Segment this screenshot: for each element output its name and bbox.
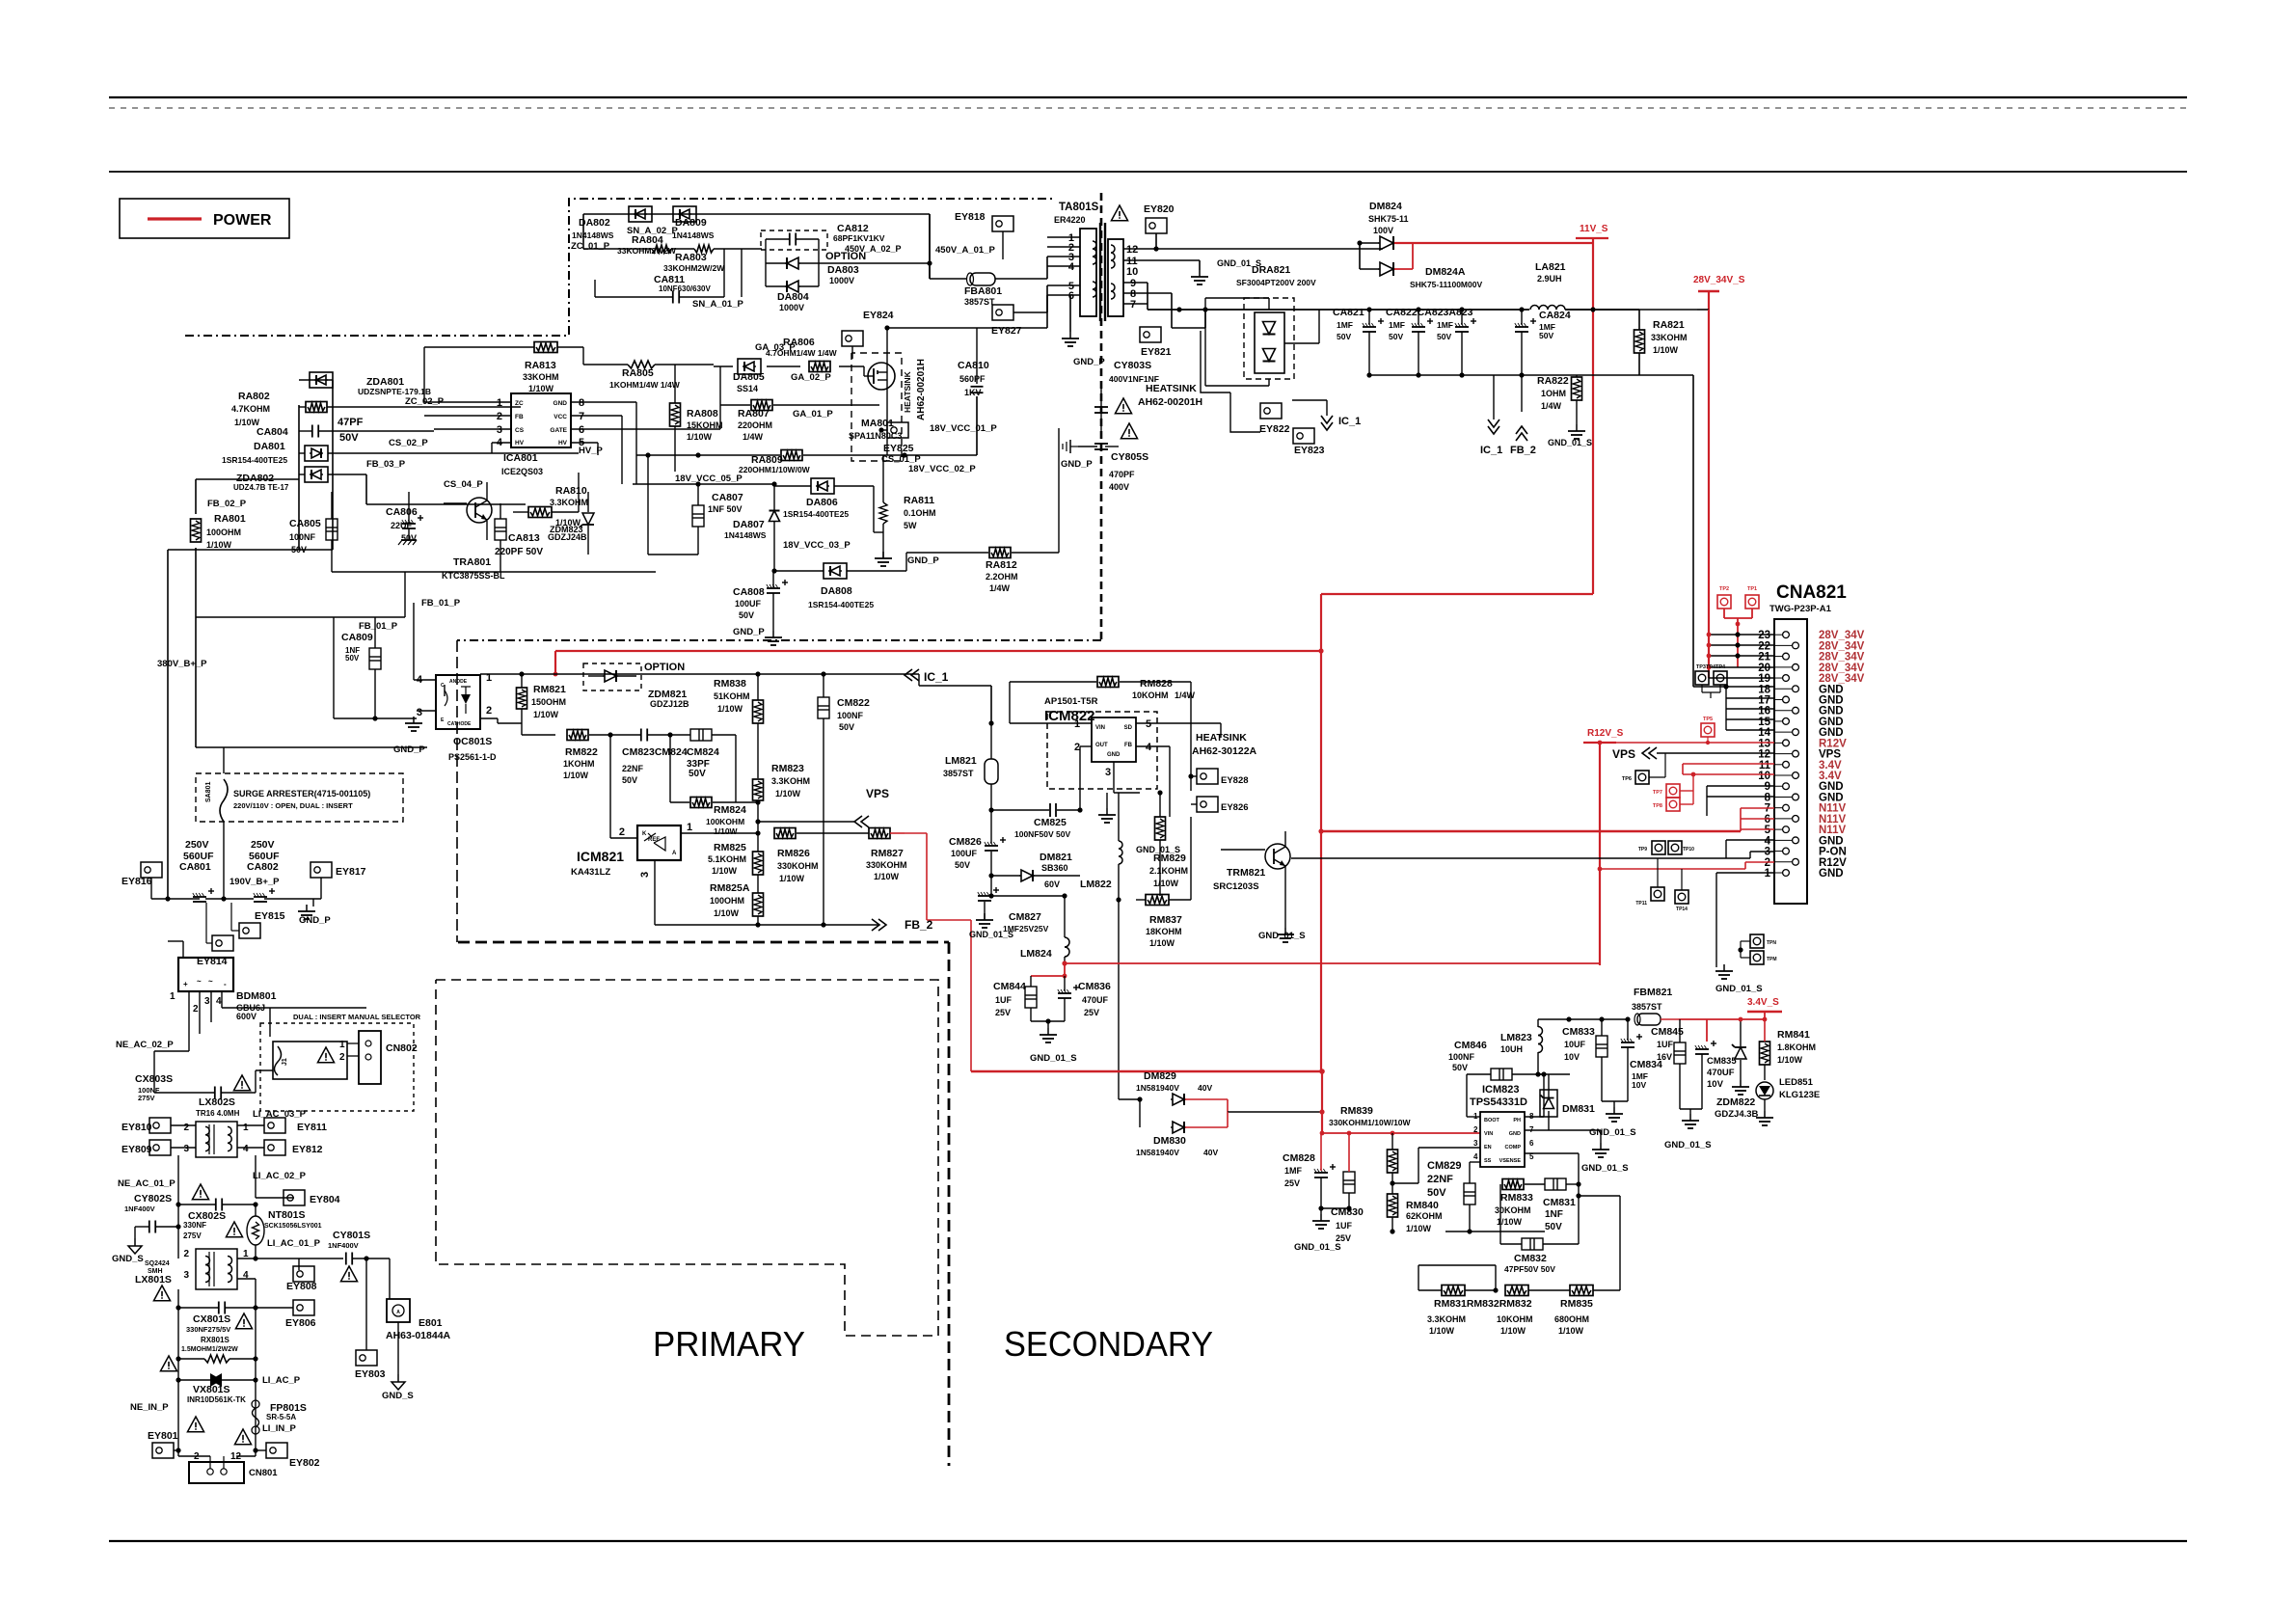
svg-text:2.2OHM: 2.2OHM xyxy=(986,572,1018,582)
label CA807 xyxy=(708,492,743,514)
wire FBM rail xyxy=(1538,1016,1631,1021)
label LI_IN_P xyxy=(262,1423,297,1434)
svg-text:220V/110V : OPEN, DUAL : INSER: 220V/110V : OPEN, DUAL : INSERT xyxy=(233,801,353,810)
connector CN801 xyxy=(178,1450,244,1483)
label LM824 xyxy=(1020,948,1052,960)
wire xfmr pin3 from FBA801 xyxy=(1046,257,1048,279)
svg-text:1/10W: 1/10W xyxy=(1429,1326,1455,1336)
label CM828 xyxy=(1283,1152,1315,1188)
CNA821 pin 16 GND xyxy=(1758,706,1843,717)
resistor RA802 symbol xyxy=(299,402,521,413)
CNA821 pin 1 GND xyxy=(1765,868,1844,880)
label CM833 xyxy=(1562,1026,1595,1062)
svg-text:5: 5 xyxy=(1146,718,1151,730)
CNA821 pin 19 28V_34V xyxy=(1758,673,1864,685)
testpoint TP14 xyxy=(1675,869,1688,912)
wire GND pin to gnd xyxy=(1525,1130,1629,1174)
label CA805 xyxy=(289,518,321,555)
svg-text:3: 3 xyxy=(497,424,502,436)
capacitor CM829 xyxy=(1392,1175,1475,1232)
label 28V_34V_S red xyxy=(1693,275,1745,291)
svg-text:K: K xyxy=(642,831,647,837)
svg-text:1NF: 1NF xyxy=(1545,1209,1563,1220)
sheet middle rule xyxy=(109,171,2187,173)
svg-text:3.3KOHM: 3.3KOHM xyxy=(550,498,588,507)
CNA821 pin 17 GND xyxy=(1758,694,1843,706)
svg-text:1N4148WS: 1N4148WS xyxy=(572,230,614,240)
svg-text:50V: 50V xyxy=(839,722,854,732)
svg-text:1/10W: 1/10W xyxy=(206,540,232,550)
resistor RM837 xyxy=(1065,817,1191,906)
label 18V_VCC_03_P xyxy=(783,540,851,551)
svg-text:TP10: TP10 xyxy=(1683,847,1694,853)
svg-text:SRC1203S: SRC1203S xyxy=(1213,881,1259,892)
wire SA801 vertical xyxy=(223,747,225,899)
svg-text:50V: 50V xyxy=(401,533,417,543)
terminal EY810 xyxy=(122,1118,196,1133)
svg-text:RX801S: RX801S xyxy=(201,1336,230,1344)
svg-text:ER4220: ER4220 xyxy=(1054,215,1086,225)
svg-text:GND: GND xyxy=(1819,706,1844,717)
svg-text:GND: GND xyxy=(1509,1131,1521,1137)
label GND_P CY805S xyxy=(1061,459,1093,470)
diode DM824 xyxy=(1357,236,1395,250)
svg-text:CY802S: CY802S xyxy=(134,1193,172,1204)
svg-text:CX801S: CX801S xyxy=(193,1313,230,1325)
wire B+ node xyxy=(165,896,224,901)
svg-text:1N581940V: 1N581940V xyxy=(1136,1083,1179,1093)
svg-text:EN: EN xyxy=(1484,1145,1492,1150)
svg-text:OPTION: OPTION xyxy=(644,662,685,673)
svg-text:CA810: CA810 xyxy=(958,360,989,371)
svg-text:RM840: RM840 xyxy=(1406,1200,1439,1211)
label 190V_B+_P xyxy=(230,877,280,887)
svg-text:EY822: EY822 xyxy=(1259,423,1290,435)
capacitor CM826 electrolytic xyxy=(985,810,1006,899)
label GND_01_S xfmr xyxy=(1217,258,1261,268)
warning triangle CY805S xyxy=(1121,423,1137,439)
CNA821 pin 7 N11V xyxy=(1765,803,1847,815)
label ZDM823 xyxy=(548,525,587,542)
svg-text:SHK75-11: SHK75-11 xyxy=(1368,214,1409,224)
varistor VX801S xyxy=(176,1373,257,1387)
svg-text:SECONDARY: SECONDARY xyxy=(1004,1324,1213,1364)
transformer TA801S label xyxy=(1054,202,1099,225)
svg-text:EY823: EY823 xyxy=(1294,445,1325,456)
svg-text:1: 1 xyxy=(339,1040,345,1050)
dual diode DRA821 inner box xyxy=(1255,312,1284,373)
label RM827 xyxy=(866,848,907,881)
transformer pin stubs xyxy=(1047,237,1080,295)
svg-text:10: 10 xyxy=(1758,771,1770,782)
wire 380V_B+ left vertical xyxy=(168,550,333,899)
svg-text:VIN: VIN xyxy=(1095,725,1105,731)
resistor RM841 xyxy=(1760,1019,1770,1080)
terminal EY815 xyxy=(231,903,285,938)
svg-text:50V: 50V xyxy=(1389,332,1403,341)
svg-text:VX801S: VX801S xyxy=(193,1384,230,1395)
IC ICM823 body xyxy=(1480,1112,1525,1167)
transistor TRA801 xyxy=(444,482,492,540)
wire xfmr primary pin6 gnd xyxy=(1062,295,1079,346)
ICA801 right pin wires xyxy=(571,402,720,484)
svg-text:220OHM: 220OHM xyxy=(738,420,772,430)
gnd E801 arrow xyxy=(382,1322,414,1401)
label CM826 xyxy=(949,836,982,870)
label 18V_VCC_01_P xyxy=(930,423,997,434)
svg-text:450V_A_01_P: 450V_A_01_P xyxy=(935,245,995,256)
svg-text:LX802S: LX802S xyxy=(199,1096,235,1108)
svg-text:21: 21 xyxy=(1758,652,1770,663)
svg-text:1: 1 xyxy=(170,991,176,1002)
fuse FP801S xyxy=(252,1380,259,1434)
wire divider row xyxy=(1392,1232,1418,1290)
svg-text:100V: 100V xyxy=(1373,226,1393,235)
label CM827 xyxy=(969,911,1049,939)
svg-text:0.1OHM: 0.1OHM xyxy=(904,508,936,518)
svg-text:TP11: TP11 xyxy=(1635,901,1647,907)
svg-text:GND_01_S: GND_01_S xyxy=(1589,1127,1636,1138)
svg-text:28V_34V: 28V_34V xyxy=(1819,640,1865,652)
inductor LM821 cylinder xyxy=(985,720,998,810)
optocoupler OC801S box xyxy=(436,675,480,729)
svg-text:J1: J1 xyxy=(282,1058,288,1066)
transformer winding arcs primary xyxy=(1093,241,1096,297)
black wire P-ON pin3 xyxy=(1291,852,1774,858)
svg-text:RM823: RM823 xyxy=(771,763,804,774)
net arrow FB_2 right xyxy=(1510,375,1536,456)
connector CNA821 body xyxy=(1774,619,1807,904)
svg-text:RA812: RA812 xyxy=(986,559,1017,571)
label CA812 xyxy=(825,223,902,262)
svg-text:CM832: CM832 xyxy=(1514,1253,1547,1264)
DRA821 diode bottom xyxy=(1263,349,1276,362)
svg-text:RA805: RA805 xyxy=(622,367,654,379)
svg-text:100OHM: 100OHM xyxy=(206,528,241,537)
svg-text:OPTION: OPTION xyxy=(825,251,866,262)
svg-text:GND: GND xyxy=(1819,868,1844,880)
capacitor CM835 electrolytic xyxy=(1695,1019,1716,1109)
diode DM824A xyxy=(1360,243,1413,276)
resistor RA806 xyxy=(809,362,830,372)
svg-text:4.7KOHM: 4.7KOHM xyxy=(231,404,270,414)
svg-text:HV: HV xyxy=(515,440,525,447)
svg-text:150OHM: 150OHM xyxy=(531,697,566,707)
label CA813 xyxy=(495,532,543,557)
capacitor CA808 electrolytic xyxy=(765,571,788,645)
primary/secondary boundary vertical through transformer xyxy=(1100,193,1103,640)
transformer winding arcs secondary xyxy=(1111,245,1115,299)
testpoint TP11 xyxy=(1635,858,1664,907)
wire drain to xfmr pin5 xyxy=(884,285,1047,331)
svg-text:3: 3 xyxy=(183,1144,189,1154)
svg-text:CM845: CM845 xyxy=(1651,1026,1684,1038)
SA801 arrester symbol xyxy=(220,779,228,822)
wire IC_1 net to LM821 xyxy=(919,675,991,723)
label RA807 xyxy=(738,408,833,442)
terminal EY828 xyxy=(1188,762,1248,791)
label BDM801 xyxy=(236,990,277,1021)
terminal EY826 xyxy=(1191,791,1249,813)
resistor RM824 xyxy=(670,798,758,808)
diode DA808 xyxy=(774,553,906,579)
capacitor CA807 xyxy=(645,452,704,555)
net arrow IC_1 big xyxy=(1480,375,1502,456)
label CNA821 xyxy=(1769,582,1847,614)
zener ZDA802 xyxy=(299,467,366,482)
ICM821 internals xyxy=(642,831,677,856)
svg-text:2: 2 xyxy=(183,1123,189,1133)
svg-text:4: 4 xyxy=(417,674,423,686)
svg-text:TP3TP4TP4: TP3TP4TP4 xyxy=(1696,664,1726,670)
svg-text:CM829: CM829 xyxy=(1427,1160,1461,1172)
svg-text:CM825: CM825 xyxy=(1034,817,1067,828)
wire heatsink area outline xyxy=(1201,331,1260,432)
svg-text:10KOHM: 10KOHM xyxy=(1497,1314,1533,1324)
svg-text:12: 12 xyxy=(1126,244,1138,256)
label RM824 xyxy=(706,804,746,836)
label SQ2424 SMH xyxy=(145,1260,170,1275)
PRIMARY section label xyxy=(653,1324,805,1364)
testpoint TP3 TP4 pair xyxy=(1695,664,1727,698)
svg-text:33KOHM: 33KOHM xyxy=(1651,333,1688,342)
svg-text:1.5MOHM1/2W2W: 1.5MOHM1/2W2W xyxy=(181,1346,238,1353)
svg-text:TP2: TP2 xyxy=(1719,586,1729,592)
label SN_A_01_P xyxy=(692,299,743,310)
label TRA801 xyxy=(442,556,505,581)
svg-text:RA821: RA821 xyxy=(1653,319,1685,331)
red supply stubs to pins 23-19 xyxy=(1707,310,1774,678)
svg-text:33KOHM: 33KOHM xyxy=(523,372,559,382)
svg-text:220OHM1/10W/0W: 220OHM1/10W/0W xyxy=(739,465,811,474)
net arrow IC_1 small xyxy=(1292,400,1361,430)
svg-text:2: 2 xyxy=(193,1004,199,1015)
svg-text:CY803S: CY803S xyxy=(1114,360,1151,371)
warning CX802S pair xyxy=(192,1184,242,1237)
svg-text:VPS: VPS xyxy=(1612,747,1635,761)
svg-text:TP9: TP9 xyxy=(1638,847,1647,853)
wire FB bus left xyxy=(196,479,427,747)
svg-text:CATHODE: CATHODE xyxy=(447,721,472,727)
svg-text:50V: 50V xyxy=(1539,331,1553,340)
label CA808 xyxy=(733,586,765,637)
svg-text:GND_01_S: GND_01_S xyxy=(1030,1053,1077,1064)
svg-text:50V: 50V xyxy=(739,610,754,620)
svg-text:5: 5 xyxy=(1765,825,1771,836)
ICA801 pin numbers xyxy=(497,397,584,448)
svg-text:GND: GND xyxy=(1819,717,1844,728)
svg-text:2: 2 xyxy=(486,705,492,717)
svg-text:GND_P: GND_P xyxy=(299,915,331,926)
svg-text:LX801S: LX801S xyxy=(135,1274,172,1286)
svg-text:1N4148WS: 1N4148WS xyxy=(724,530,767,540)
label HEATSINK AH62-00201H right xyxy=(1138,383,1202,408)
svg-text:A: A xyxy=(672,851,677,856)
label CA810 xyxy=(958,360,989,397)
svg-text:LI_AC_02_P: LI_AC_02_P xyxy=(253,1171,307,1181)
label RM833 xyxy=(1495,1192,1533,1227)
svg-text:SF3004PT200V 200V: SF3004PT200V 200V xyxy=(1236,278,1316,287)
svg-text:OC801S: OC801S xyxy=(453,736,492,747)
capacitor CA809 xyxy=(369,617,381,718)
gnd CM833 CM834 xyxy=(1589,1101,1636,1138)
resistor RM822 xyxy=(567,730,613,741)
label RM828 xyxy=(1132,678,1196,700)
label CA804 xyxy=(257,417,364,444)
transformer primary pins xyxy=(1068,232,1075,302)
label CA822 xyxy=(1386,307,1473,341)
svg-text:DA809: DA809 xyxy=(675,217,707,229)
label DA807 xyxy=(724,519,767,540)
red wire R12V to pin13 xyxy=(1598,741,1774,745)
svg-text:1/10W: 1/10W xyxy=(1149,938,1175,948)
svg-text:RA811: RA811 xyxy=(904,495,934,506)
ICM822 pin wires xyxy=(1010,723,1221,817)
svg-text:4: 4 xyxy=(1068,261,1075,273)
svg-text:VPS: VPS xyxy=(1819,749,1841,761)
svg-text:10NF630/630V: 10NF630/630V xyxy=(659,284,711,293)
label NE_IN_P xyxy=(130,1402,169,1413)
svg-text:18KOHM: 18KOHM xyxy=(1146,927,1182,936)
svg-text:1MF: 1MF xyxy=(1284,1166,1303,1176)
svg-text:TWG-P23P-A1: TWG-P23P-A1 xyxy=(1769,604,1832,614)
svg-text:CNA821: CNA821 xyxy=(1776,582,1847,603)
svg-text:CM824: CM824 xyxy=(687,746,719,758)
CNA821 pin 6 N11V xyxy=(1765,814,1847,826)
label LM822 xyxy=(1080,879,1112,890)
svg-text:22: 22 xyxy=(1758,640,1770,652)
gnd CM844 CM836 xyxy=(1030,1018,1077,1064)
svg-text:DM824A: DM824A xyxy=(1425,266,1466,278)
svg-text:2: 2 xyxy=(183,1249,189,1259)
red bus 3.4V feed horizontal xyxy=(971,1069,1325,1074)
warning CX803S xyxy=(233,1075,250,1091)
wire pin2 to RM822 xyxy=(522,723,555,735)
svg-text:FB: FB xyxy=(1124,743,1133,748)
svg-text:VPS: VPS xyxy=(866,787,889,800)
wire snubber top rail xyxy=(583,214,930,259)
label CM846 xyxy=(1448,1040,1487,1072)
svg-text:NE_AC_02_P: NE_AC_02_P xyxy=(116,1040,174,1050)
capacitor CA811 xyxy=(595,249,724,304)
wire FB_2 bottom rail xyxy=(655,922,879,927)
label RA804 xyxy=(617,234,677,256)
red feedback bus horizontal xyxy=(555,648,1324,674)
svg-text:UDZSNPTE-179.1B: UDZSNPTE-179.1B xyxy=(358,387,431,396)
svg-text:TPS54331D: TPS54331D xyxy=(1470,1096,1527,1108)
svg-text:1/10W: 1/10W xyxy=(712,866,738,876)
svg-text:FBA801: FBA801 xyxy=(964,285,1002,297)
label CA821 xyxy=(1333,307,1364,341)
svg-text:40V: 40V xyxy=(1203,1148,1218,1157)
resistor RA811 xyxy=(874,455,892,566)
svg-text:GND_P: GND_P xyxy=(1061,459,1093,470)
terminal EY804 xyxy=(284,1190,340,1205)
svg-text:UDZ4.7B TE-17: UDZ4.7B TE-17 xyxy=(233,483,289,492)
svg-text:EY827: EY827 xyxy=(991,325,1022,337)
label CA823 xyxy=(1437,320,1453,341)
svg-text:1KOHM1/4W 1/4W: 1KOHM1/4W 1/4W xyxy=(609,380,681,390)
svg-text:CX803S: CX803S xyxy=(135,1073,173,1085)
label CA801 250V 560UF xyxy=(179,839,214,873)
svg-text:RA807: RA807 xyxy=(738,408,770,420)
svg-text:FB_03_P: FB_03_P xyxy=(366,459,406,470)
wire bottom rail TRA801 area xyxy=(196,572,656,617)
svg-text:DA805: DA805 xyxy=(733,371,765,383)
svg-text:15: 15 xyxy=(1758,717,1770,728)
resistor RM825 xyxy=(753,833,764,881)
svg-text:3857ST: 3857ST xyxy=(943,769,974,778)
resistor RM825A xyxy=(753,881,764,928)
label TRM821 xyxy=(1213,867,1306,941)
CNA821 pin 11 3.4V xyxy=(1759,760,1842,771)
svg-text:600V: 600V xyxy=(236,1012,257,1021)
capacitor CA821 xyxy=(1363,307,1384,377)
label CA806 xyxy=(386,506,418,543)
resistor RA812 xyxy=(906,428,1059,558)
svg-text:CM828: CM828 xyxy=(1283,1152,1315,1164)
ferrite FBA801 xyxy=(930,259,1047,285)
svg-text:RA803: RA803 xyxy=(675,252,707,263)
wire main output bus1 xyxy=(1205,309,1593,311)
resistor RX801S xyxy=(176,1355,257,1363)
resistor RM832 xyxy=(1505,1286,1570,1296)
diode DA807 vertical xyxy=(770,505,780,574)
capacitor CA823 xyxy=(1455,307,1476,377)
svg-text:GND_01_S: GND_01_S xyxy=(1581,1163,1629,1174)
label CM830 xyxy=(1331,1206,1364,1243)
IC ICA801 box xyxy=(511,393,571,447)
capacitor CA813 xyxy=(495,503,506,572)
terminal EY812 xyxy=(237,1140,323,1155)
POWER legend red sample wire xyxy=(148,217,202,220)
svg-text:2.9UH: 2.9UH xyxy=(1537,274,1562,284)
capacitor CA822 xyxy=(1412,307,1433,377)
svg-text:14: 14 xyxy=(1758,727,1770,739)
label GND_P opto xyxy=(393,744,425,755)
capacitor CM833 xyxy=(1596,1019,1607,1101)
svg-text:10UF: 10UF xyxy=(1564,1040,1586,1049)
svg-text:GDZJ4.3B: GDZJ4.3B xyxy=(1715,1109,1759,1120)
svg-text:RA810: RA810 xyxy=(555,485,587,497)
svg-text:HV: HV xyxy=(558,440,568,447)
CNA821 pin 4 GND xyxy=(1765,835,1844,847)
ICM821 pin3 wire xyxy=(639,860,655,925)
svg-text:20: 20 xyxy=(1758,663,1770,674)
svg-text:LED851: LED851 xyxy=(1779,1077,1814,1088)
warning CX801S xyxy=(235,1313,252,1329)
capacitor CM831 xyxy=(1545,1178,1579,1190)
red wire 3.4V_S rail xyxy=(1679,1017,1767,1042)
svg-text:GND: GND xyxy=(1819,792,1844,803)
svg-text:ZC_01_P: ZC_01_P xyxy=(571,241,610,252)
wire EN divider to IC xyxy=(1392,1148,1480,1183)
terminal EY801 xyxy=(148,1430,181,1458)
label RM831 xyxy=(1427,1298,1532,1336)
svg-text:250V: 250V xyxy=(251,839,275,851)
label DA808 xyxy=(808,585,874,609)
svg-text:4: 4 xyxy=(216,996,222,1007)
label LX801S xyxy=(135,1274,172,1286)
svg-text:VIN: VIN xyxy=(1484,1131,1493,1137)
wire snubber to xfmr xyxy=(742,214,932,297)
wire FB_01 to opto pin4 xyxy=(414,598,461,680)
svg-text:EY802: EY802 xyxy=(289,1457,320,1469)
red wire 11V_S vertical xyxy=(1592,238,1594,594)
svg-text:GND: GND xyxy=(1819,835,1844,847)
svg-text:1/10W: 1/10W xyxy=(533,710,559,719)
svg-text:4: 4 xyxy=(1765,835,1771,847)
